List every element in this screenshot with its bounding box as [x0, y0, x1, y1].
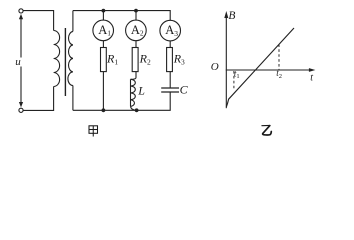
label jia (甲)	[89, 126, 98, 137]
transformer core	[64, 28, 66, 96]
transformer primary winding	[54, 31, 60, 87]
B-t line	[226, 28, 294, 107]
wire: top bus	[73, 11, 170, 21]
resistor R2	[132, 48, 138, 72]
terminal top-left	[19, 9, 23, 13]
wire: top terminal to primary	[23, 11, 53, 31]
inductor L	[130, 79, 132, 106]
t axis	[226, 69, 310, 71]
svg-text:C: C	[180, 82, 189, 96]
resistor R1	[101, 48, 107, 72]
B axis	[225, 14, 227, 108]
capacitor C	[161, 87, 179, 89]
transformer secondary winding	[68, 31, 73, 85]
graph axes	[224, 11, 315, 108]
terminal bottom-left	[19, 108, 23, 112]
wire: bottom terminal to primary	[23, 87, 53, 111]
wire: secondary bottom lead	[72, 86, 74, 111]
node: branch2 top junction	[134, 9, 138, 13]
voltage arrow u (double-headed)	[19, 14, 23, 108]
wire: R3 to capacitor	[169, 72, 171, 88]
svg-text:O: O	[211, 61, 219, 73]
node: branch2 bottom junction	[135, 108, 139, 112]
ammeter A2	[126, 20, 147, 41]
wire: A1 to R1	[102, 41, 104, 48]
wire: A2 to R2	[135, 41, 137, 48]
wire: A3 to R3	[169, 41, 171, 48]
dashed line t1	[233, 71, 235, 90]
svg-text:t: t	[310, 73, 313, 84]
wire: bottom bus	[73, 92, 170, 110]
wire: R1 to bottom bus	[102, 72, 104, 111]
svg-text:L: L	[137, 84, 145, 98]
ammeter A1	[93, 20, 114, 41]
wire: secondary top lead	[72, 11, 74, 32]
label yi (乙)	[262, 125, 271, 135]
ammeter A3	[160, 20, 181, 41]
svg-text:u: u	[15, 56, 21, 68]
resistor R3	[167, 48, 173, 72]
node: branch1 bottom junction	[102, 108, 106, 112]
wire: branch2 bus to A2	[135, 11, 137, 21]
wire: branch1 bus to A1	[102, 11, 104, 21]
svg-text:B: B	[228, 10, 235, 22]
dashed line t2	[278, 44, 280, 69]
wire: R2 to inductor	[131, 72, 137, 80]
node: branch1 top junction	[102, 9, 106, 13]
